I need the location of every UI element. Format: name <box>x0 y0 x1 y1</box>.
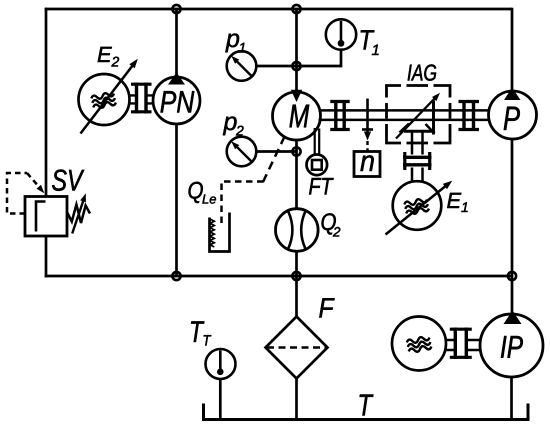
motor M circle <box>273 92 321 140</box>
coupling E1 bars <box>403 157 432 165</box>
leak dashed line to M <box>263 134 286 183</box>
tank line <box>204 404 529 420</box>
sensor n pickup line <box>366 99 369 132</box>
pump IP circle <box>480 314 543 377</box>
motor M inlet triangle <box>291 90 302 102</box>
gearbox IAG lower gear line <box>404 130 434 133</box>
gearbox IAG vertical gear line <box>432 101 435 135</box>
sensor FT square <box>312 160 322 170</box>
node PN-return <box>172 272 180 280</box>
label p2 <box>223 117 237 136</box>
node IP-return <box>508 272 516 280</box>
flowmeter Q2 venturi arcs <box>288 212 305 249</box>
wire right branch top to P <box>511 8 514 92</box>
motor E1 wavy lines <box>404 197 430 215</box>
motor E2 wavy lines <box>91 91 117 109</box>
gearbox IAG mesh mark left <box>400 124 410 133</box>
sensor TT circle <box>206 349 236 379</box>
pump P outlet triangle <box>504 88 521 101</box>
motor E1 variable arrow <box>386 185 448 235</box>
box n <box>354 152 380 177</box>
wire p2 to node <box>256 150 297 153</box>
node F-return <box>292 272 300 280</box>
motor E2 circle <box>79 74 130 125</box>
label QLe <box>189 182 203 203</box>
valve SV pilot dashed line <box>7 173 27 214</box>
gauge p1 circle <box>227 51 257 81</box>
label E2 <box>98 47 112 62</box>
wire p1 to node <box>256 65 297 68</box>
sensor T1 circle <box>326 19 356 49</box>
gearbox IAG mesh mark right <box>426 124 435 134</box>
label F <box>319 298 334 317</box>
label SV <box>52 170 84 191</box>
pump P circle <box>489 91 537 139</box>
wire PN bottom line <box>175 123 178 276</box>
label M <box>290 105 310 128</box>
shaft IAG to E1 <box>412 131 423 182</box>
wire M top line <box>295 9 298 93</box>
node p1/T1 tap <box>292 62 300 70</box>
label PN <box>161 91 195 112</box>
wire TT to tank <box>219 379 222 420</box>
coupling M-side bars <box>336 100 344 131</box>
wire T1 to node <box>297 49 342 67</box>
sensor FT shaft <box>315 128 320 155</box>
filter F dashed element <box>267 346 326 348</box>
coupling E2-PN shaft stubs <box>129 95 155 103</box>
wire left branch down to SV <box>45 8 48 197</box>
node top-PN <box>172 5 180 13</box>
wire SV outlet down <box>45 236 48 278</box>
shaft M to P <box>319 110 489 120</box>
wire M bottom to Q2 <box>295 139 298 210</box>
pump PN circle <box>153 77 200 124</box>
coupling IP shaft stubs <box>445 340 482 350</box>
gauge p2 needle <box>234 144 252 162</box>
valve SV internal path <box>36 202 46 232</box>
sensor TT stem <box>219 351 222 372</box>
label T1 <box>361 30 375 49</box>
sensor n arrow <box>364 132 371 141</box>
motor E2 variable arrow <box>81 65 134 134</box>
label IP <box>501 336 523 358</box>
pump IP outlet triangle <box>504 311 522 325</box>
coupling P-side bars <box>464 100 474 131</box>
gearbox IAG adjust arrow <box>396 97 437 139</box>
wire top supply line <box>45 8 512 11</box>
label T <box>360 395 374 416</box>
wire IP bottom to tank <box>510 376 513 418</box>
wire return line to filter F <box>295 276 298 317</box>
motor E1 circle <box>393 181 442 230</box>
label IAG <box>408 64 437 80</box>
pump PN outlet triangle <box>168 73 185 85</box>
label TT <box>191 321 204 342</box>
sensor FT circle <box>307 155 328 176</box>
node p2 tap <box>292 147 300 155</box>
valve SV spring <box>67 205 90 224</box>
gauge p1 needle <box>234 59 252 77</box>
sensor n dashed link <box>366 141 368 151</box>
valve SV spring arrow <box>72 198 84 234</box>
label Q2 <box>322 213 336 234</box>
label E1 <box>447 193 461 208</box>
beaker QLe <box>210 213 230 252</box>
gauge p2 circle <box>227 137 257 167</box>
wire filter F to tank <box>295 378 298 420</box>
valve SV pilot diagonal <box>27 173 40 188</box>
label FT <box>309 178 334 195</box>
node top-M <box>292 5 300 13</box>
wire PN top line <box>175 9 178 78</box>
label p1 <box>225 34 239 53</box>
sensor T1 stem <box>340 21 343 43</box>
flowmeter Q2 circle <box>276 209 319 252</box>
filter F diamond <box>266 317 328 379</box>
motor IP-drive circle <box>392 317 446 371</box>
valve SV body <box>25 197 67 237</box>
motor IP-drive wavy lines <box>406 335 432 353</box>
wire P bottom down to IP <box>511 138 514 315</box>
coupling IP bars <box>455 328 466 360</box>
wire bottom return line <box>45 275 512 278</box>
label n <box>360 155 373 171</box>
wire Q2 to return line <box>295 251 298 277</box>
leak dashed horizontal <box>222 182 264 226</box>
beaker QLe scale <box>210 219 214 247</box>
gearbox IAG dashed box <box>387 86 451 144</box>
label P <box>504 107 520 130</box>
coupling E2-PN bars <box>137 83 147 114</box>
